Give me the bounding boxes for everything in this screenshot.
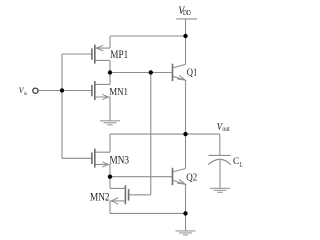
svg-text:MP1: MP1 <box>110 48 128 61</box>
svg-text:Q1: Q1 <box>187 68 198 79</box>
svg-text:L: L <box>240 161 243 169</box>
svg-text:MN1: MN1 <box>109 86 128 98</box>
svg-text:Q2: Q2 <box>186 173 197 184</box>
svg-text:C: C <box>233 156 239 166</box>
svg-text:MN2: MN2 <box>90 190 110 204</box>
svg-text:MN3: MN3 <box>110 152 130 166</box>
svg-text:DD: DD <box>183 8 191 17</box>
svg-text:in: in <box>24 91 27 97</box>
svg-text:out: out <box>222 124 230 133</box>
